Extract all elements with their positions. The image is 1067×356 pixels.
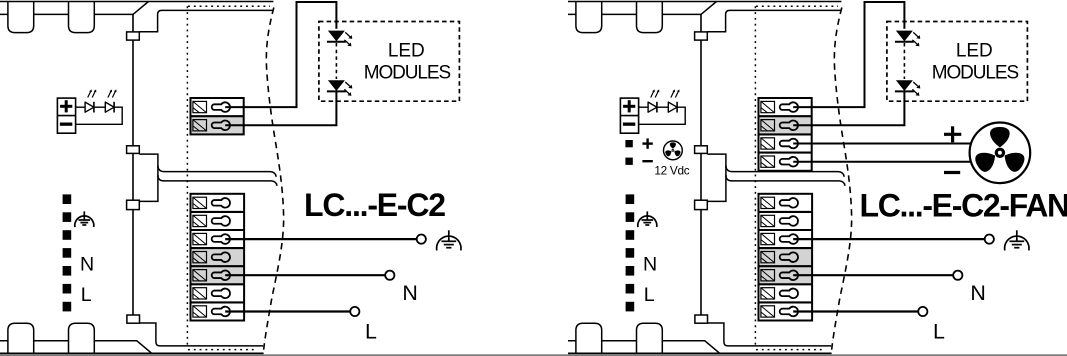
chassis bottom mounting tab 1 (LC-E-C2): [8, 323, 34, 353]
mains terminal block divider 6 (LC-E-C2): [191, 301, 245, 303]
LED output terminal block divider 1 (LC-E-C2-FAN): [759, 115, 812, 117]
LED output terminal block outline (LC-E-C2): [191, 98, 244, 134]
minus terminal symbol (LC-E-C2-FAN): [623, 123, 635, 126]
chassis top mounting tab 2 (LC-E-C2): [69, 2, 95, 33]
module LED 2 light rays (LC-E-C2): [345, 82, 350, 87]
mains terminal 1 push-in keyhole (LC-E-C2): [212, 198, 230, 208]
mains terminal 5 cage-clamp mark (LC-E-C2): [193, 270, 207, 281]
driver enclosure dotted top edge (LC-E-C2-FAN): [756, 5, 838, 7]
mains terminal 2 push-in keyhole (LC-E-C2): [212, 216, 230, 226]
chassis bottom step contour (LC-E-C2): [139, 323, 263, 346]
wire neutral terminal to N node (LC-E-C2): [225, 274, 385, 276]
mains terminal block body (LC-E-C2-FAN): [759, 194, 813, 321]
wire fan - supply (LC-E-C2-FAN): [793, 161, 971, 163]
mains terminal block outline (LC-E-C2-FAN): [759, 194, 813, 321]
wire LED D2 return to minus (LC-E-C2): [76, 107, 123, 124]
svg-text:N: N: [80, 253, 94, 275]
LED output terminal block divider 3 (LC-E-C2-FAN): [759, 152, 812, 154]
junction box 1 (LC-E-C2): [127, 32, 140, 40]
LED output terminal block gray cell 2 (LC-E-C2-FAN): [759, 116, 812, 134]
mains terminal 2 push-in keyhole (LC-E-C2-FAN): [780, 216, 798, 226]
module LED 1 light rays (LC-E-C2): [345, 32, 350, 37]
LED output terminal 1 cage-clamp mark (LC-E-C2-FAN): [761, 101, 775, 112]
indicator LED D2 (LC-E-C2-FAN): [668, 102, 677, 112]
plus terminal symbol (LC-E-C2-FAN): [623, 105, 635, 108]
LED output terminal 1 push-in keyhole (LC-E-C2-FAN): [780, 102, 798, 112]
L node terminal circle (LC-E-C2): [350, 307, 359, 316]
mains cable dashed marker (LC-E-C2): [63, 194, 72, 204]
LED output terminal 3 push-in keyhole (LC-E-C2-FAN): [780, 139, 798, 149]
svg-text:LC...-E-C2-FAN: LC...-E-C2-FAN: [860, 188, 1067, 224]
mains terminal 6 push-in keyhole (LC-E-C2): [212, 289, 230, 299]
wire plus to LED D1 (LC-E-C2-FAN): [639, 106, 649, 108]
wire junction 1 to junction 2 (LC-E-C2-FAN): [700, 40, 702, 146]
junction box 4 (LC-E-C2-FAN): [695, 315, 708, 323]
driver DC source divider (LC-E-C2): [57, 115, 75, 117]
junction box 2 (LC-E-C2-FAN): [695, 146, 708, 154]
aux output + pin square (LC-E-C2-FAN): [625, 140, 632, 147]
wire dashed LED string continuation (LC-E-C2-FAN): [903, 43, 905, 79]
LED output terminal 4 cage-clamp mark (LC-E-C2-FAN): [761, 156, 775, 167]
svg-text:MODULES: MODULES: [932, 62, 1019, 83]
N node terminal circle (LC-E-C2-FAN): [953, 271, 962, 280]
driver enclosure torn-edge dashed curve (LC-E-C2): [263, 8, 283, 354]
LED modules dashed box (LC-E-C2-FAN): [887, 22, 1028, 102]
aux output - sign (LC-E-C2-FAN): [642, 160, 652, 162]
LED output terminal 1 push-in keyhole (LC-E-C2): [212, 102, 230, 112]
wire junction 1 to junction 2 (LC-E-C2): [132, 40, 134, 146]
driver enclosure torn-edge dashed curve (LC-E-C2-FAN): [831, 8, 851, 354]
wire LED D2 return to minus (LC-E-C2-FAN): [639, 107, 686, 124]
mains cable earth symbol (LC-E-C2-FAN): [646, 211, 648, 220]
mains terminal 7 push-in keyhole (LC-E-C2): [212, 307, 230, 317]
luminaire chassis bottom edge (LC-E-C2-FAN): [568, 352, 832, 354]
mains terminal 7 cage-clamp mark (LC-E-C2): [193, 306, 207, 317]
wire line terminal to L node (LC-E-C2-FAN): [793, 310, 918, 312]
svg-text:12 Vdc: 12 Vdc: [654, 163, 689, 177]
chassis top step contour (LC-E-C2): [139, 10, 273, 31]
driver enclosure dotted left edge (LC-E-C2): [186, 6, 188, 345]
svg-text:MODULES: MODULES: [364, 62, 451, 83]
svg-text:L: L: [933, 319, 945, 343]
wire junction 2 to junction 3 (LC-E-C2-FAN): [700, 153, 702, 200]
fan - polarity label (LC-E-C2-FAN): [944, 171, 960, 174]
N node terminal circle (LC-E-C2): [385, 271, 394, 280]
earth node terminal circle (LC-E-C2-FAN): [985, 235, 994, 244]
wire loop junction 2 to junction 3 right side (LC-E-C2-FAN): [707, 154, 726, 201]
earth node symbol (LC-E-C2-FAN): [1016, 230, 1018, 241]
mains terminal 5 push-in keyhole (LC-E-C2-FAN): [780, 270, 798, 280]
driver DC source divider (LC-E-C2-FAN): [620, 115, 638, 117]
mains terminal 4 push-in keyhole (LC-E-C2): [212, 252, 230, 262]
luminaire chassis top edge (LC-E-C2-FAN): [568, 1, 841, 3]
chassis bottom inner surface line (LC-E-C2-FAN): [568, 341, 720, 354]
LED output terminal block gray cell 2 (LC-E-C2): [191, 116, 244, 134]
LED D1 light rays (LC-E-C2-FAN): [651, 91, 654, 98]
driver enclosure dotted top edge (LC-E-C2): [188, 5, 270, 7]
mains terminal block divider 4 (LC-E-C2): [191, 265, 245, 267]
plus terminal symbol (LC-E-C2): [60, 105, 72, 108]
mains terminal block body (LC-E-C2): [191, 194, 245, 321]
svg-text:N: N: [970, 281, 985, 305]
svg-text:L: L: [365, 319, 377, 343]
aux output - pin square (LC-E-C2-FAN): [625, 158, 632, 165]
driver DC source box (LC-E-C2-FAN): [620, 98, 638, 133]
mains terminal block gray cells 4-5 (LC-E-C2-FAN): [759, 248, 813, 284]
wire LED D1 to D2 (LC-E-C2-FAN): [657, 106, 668, 108]
junction box 3 (LC-E-C2-FAN): [695, 200, 708, 209]
chassis bottom inner surface line (LC-E-C2): [0, 341, 152, 354]
module LED 1 (LC-E-C2-FAN): [896, 31, 913, 42]
wire stub to hidden circuitry upper (LC-E-C2-FAN): [726, 165, 844, 177]
svg-text:N: N: [402, 281, 417, 305]
svg-text:L: L: [644, 284, 655, 306]
mains terminal 6 push-in keyhole (LC-E-C2-FAN): [780, 289, 798, 299]
mains terminal block divider 6 (LC-E-C2-FAN): [759, 301, 813, 303]
wire LED- terminal to LED modules cathode (LC-E-C2): [225, 91, 336, 126]
wire earth terminal to earth node (LC-E-C2-FAN): [793, 238, 985, 240]
earth node terminal circle (LC-E-C2): [417, 235, 426, 244]
wire junction 3 to junction 4 (LC-E-C2-FAN): [700, 210, 702, 315]
mains terminal 6 cage-clamp mark (LC-E-C2): [193, 288, 207, 299]
svg-text:N: N: [643, 253, 657, 275]
mains terminal 7 cage-clamp mark (LC-E-C2-FAN): [761, 306, 775, 317]
junction box 1 (LC-E-C2-FAN): [695, 32, 708, 40]
chassis top mounting tab 2 (LC-E-C2-FAN): [637, 2, 663, 33]
luminaire chassis bottom edge (LC-E-C2): [0, 352, 264, 354]
mains terminal 4 cage-clamp mark (LC-E-C2): [193, 252, 207, 263]
wire dashed LED string continuation (LC-E-C2): [335, 43, 337, 79]
mains terminal 1 push-in keyhole (LC-E-C2-FAN): [780, 198, 798, 208]
LED D2 light rays (LC-E-C2-FAN): [671, 91, 674, 98]
chassis bottom mounting tab 1 (LC-E-C2-FAN): [576, 323, 602, 353]
svg-text:L: L: [81, 284, 92, 306]
svg-text:LED: LED: [956, 41, 993, 62]
junction box 3 (LC-E-C2): [127, 200, 140, 209]
mains terminal 3 push-in keyhole (LC-E-C2): [212, 234, 230, 244]
mains terminal 5 cage-clamp mark (LC-E-C2-FAN): [761, 270, 775, 281]
driver DC source box (LC-E-C2): [57, 98, 75, 133]
mains terminal 3 push-in keyhole (LC-E-C2-FAN): [780, 234, 798, 244]
mains terminal 3 cage-clamp mark (LC-E-C2): [193, 233, 207, 244]
wire stub to hidden circuitry upper (LC-E-C2): [158, 165, 276, 177]
wire LED+ terminal to LED modules anode (LC-E-C2-FAN): [793, 2, 904, 107]
driver enclosure dotted left edge (LC-E-C2-FAN): [754, 6, 756, 345]
mains terminal 3 cage-clamp mark (LC-E-C2-FAN): [761, 233, 775, 244]
mains terminal 7 push-in keyhole (LC-E-C2-FAN): [780, 307, 798, 317]
wire fan + supply (LC-E-C2-FAN): [793, 143, 971, 145]
mains terminal block divider 1 (LC-E-C2-FAN): [759, 211, 813, 213]
junction box 4 (LC-E-C2): [127, 315, 140, 323]
LED output terminal 4 push-in keyhole (LC-E-C2-FAN): [780, 157, 798, 167]
mains terminal 5 push-in keyhole (LC-E-C2): [212, 270, 230, 280]
junction box 2 (LC-E-C2): [127, 146, 140, 154]
module LED 2 (LC-E-C2-FAN): [896, 80, 913, 91]
wire stub to hidden circuitry lower (LC-E-C2-FAN): [726, 175, 845, 186]
LED output terminal block outline (LC-E-C2-FAN): [759, 98, 812, 171]
mains terminal 1 cage-clamp mark (LC-E-C2-FAN): [761, 197, 775, 208]
wire LED D1 to D2 (LC-E-C2): [94, 106, 105, 108]
chassis top mounting tab 1 (LC-E-C2-FAN): [576, 2, 602, 33]
mains terminal block outline (LC-E-C2): [191, 194, 245, 321]
wire earth terminal to earth node (LC-E-C2): [225, 238, 417, 240]
mains terminal block divider 1 (LC-E-C2): [191, 211, 245, 213]
fan + polarity label (LC-E-C2-FAN): [944, 133, 961, 136]
driver enclosure dotted bottom edge (LC-E-C2-FAN): [756, 349, 826, 351]
LED D2 light rays (LC-E-C2): [108, 91, 111, 98]
mains terminal block divider 4 (LC-E-C2-FAN): [759, 265, 813, 267]
earth node symbol (LC-E-C2): [448, 230, 450, 241]
mains terminal block divider 5 (LC-E-C2-FAN): [759, 283, 813, 285]
wire junction 3 to junction 4 (LC-E-C2): [132, 210, 134, 315]
mains terminal block gray cells 4-5 (LC-E-C2): [191, 248, 245, 284]
wire plus to LED D1 (LC-E-C2): [76, 106, 86, 108]
minus terminal symbol (LC-E-C2): [60, 123, 72, 126]
mains terminal block divider 2 (LC-E-C2-FAN): [759, 229, 813, 231]
mains terminal 6 cage-clamp mark (LC-E-C2-FAN): [761, 288, 775, 299]
chassis top inner surface line (LC-E-C2-FAN): [568, 2, 717, 15]
aux output + sign (LC-E-C2-FAN): [642, 142, 652, 144]
mains terminal 4 push-in keyhole (LC-E-C2-FAN): [780, 252, 798, 262]
module LED 2 (LC-E-C2): [328, 80, 345, 91]
indicator LED D1 (LC-E-C2): [85, 102, 94, 112]
wire chassis drop to junction 1 (LC-E-C2): [132, 14, 134, 32]
module LED 1 (LC-E-C2): [328, 31, 345, 42]
wire loop junction 2 to junction 3 right side (LC-E-C2): [139, 154, 158, 201]
LED output terminal block divider 1 (LC-E-C2): [191, 115, 244, 117]
LED output terminal block body (LC-E-C2-FAN): [759, 98, 812, 171]
wire junction 2 to junction 3 (LC-E-C2): [132, 153, 134, 200]
LED output terminal 3 cage-clamp mark (LC-E-C2-FAN): [761, 138, 775, 149]
LED output terminal 2 push-in keyhole (LC-E-C2): [212, 121, 230, 131]
LED modules dashed box (LC-E-C2): [319, 22, 460, 102]
wire LED+ terminal to LED modules anode (LC-E-C2): [225, 2, 336, 107]
chassis top mounting tab 1 (LC-E-C2): [8, 2, 34, 33]
chassis bottom mounting tab 2 (LC-E-C2): [69, 323, 95, 353]
LED output terminal block divider 2 (LC-E-C2-FAN): [759, 133, 812, 135]
fan motor M1 blades (LC-E-C2-FAN): [973, 127, 1027, 174]
mains cable dashed marker (LC-E-C2-FAN): [626, 194, 635, 204]
indicator LED D2 (LC-E-C2): [105, 102, 114, 112]
page table border strip: [0, 354, 1067, 356]
mains cable earth symbol (LC-E-C2): [83, 211, 85, 220]
chassis top inner surface line (LC-E-C2): [0, 2, 149, 15]
mains terminal block divider 3 (LC-E-C2): [191, 247, 245, 249]
module LED 1 light rays (LC-E-C2-FAN): [913, 32, 918, 37]
driver enclosure dotted bottom edge (LC-E-C2): [188, 349, 258, 351]
chassis top step contour (LC-E-C2-FAN): [707, 10, 841, 31]
mains terminal 2 cage-clamp mark (LC-E-C2): [193, 215, 207, 226]
LED output terminal 1 cage-clamp mark (LC-E-C2): [193, 101, 207, 112]
chassis bottom step contour (LC-E-C2-FAN): [707, 323, 831, 346]
fan motor M1 body (LC-E-C2-FAN): [970, 123, 1031, 184]
mains terminal 2 cage-clamp mark (LC-E-C2-FAN): [761, 215, 775, 226]
module LED 2 light rays (LC-E-C2-FAN): [913, 82, 918, 87]
indicator LED D1 (LC-E-C2-FAN): [648, 102, 657, 112]
LED output terminal 2 push-in keyhole (LC-E-C2-FAN): [780, 121, 798, 131]
svg-text:LC...-E-C2: LC...-E-C2: [304, 187, 445, 223]
wire stub to hidden circuitry lower (LC-E-C2): [158, 175, 277, 186]
LED output terminal block body (LC-E-C2): [191, 98, 244, 134]
wire LED- terminal to LED modules cathode (LC-E-C2-FAN): [793, 91, 904, 126]
mains terminal 4 cage-clamp mark (LC-E-C2-FAN): [761, 252, 775, 263]
luminaire chassis top edge (LC-E-C2): [0, 1, 273, 3]
mains terminal block divider 3 (LC-E-C2-FAN): [759, 247, 813, 249]
mains terminal 1 cage-clamp mark (LC-E-C2): [193, 197, 207, 208]
chassis bottom mounting tab 2 (LC-E-C2-FAN): [637, 323, 663, 353]
LED output terminal 2 cage-clamp mark (LC-E-C2-FAN): [761, 120, 775, 131]
wire neutral terminal to N node (LC-E-C2-FAN): [793, 274, 953, 276]
aux fan icon (LC-E-C2-FAN): [664, 141, 683, 160]
LED output terminal 2 cage-clamp mark (LC-E-C2): [193, 120, 207, 131]
svg-text:LED: LED: [388, 41, 425, 62]
L node terminal circle (LC-E-C2-FAN): [918, 307, 927, 316]
wire line terminal to L node (LC-E-C2): [225, 310, 350, 312]
wire chassis drop to junction 1 (LC-E-C2-FAN): [700, 14, 702, 32]
mains terminal block divider 2 (LC-E-C2): [191, 229, 245, 231]
LED D1 light rays (LC-E-C2): [88, 91, 91, 98]
mains terminal block divider 5 (LC-E-C2): [191, 283, 245, 285]
